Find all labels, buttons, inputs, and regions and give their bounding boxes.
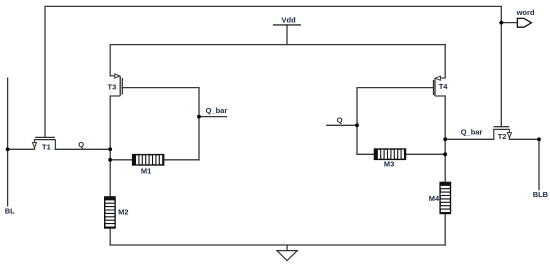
svg-text:Q: Q [78, 140, 84, 149]
svg-text:Q_bar: Q_bar [461, 127, 483, 136]
wire Vdd stem [286, 25, 288, 45]
svg-text:Q_bar: Q_bar [206, 106, 228, 115]
svg-text:T3: T3 [108, 82, 117, 91]
node word tap junction [499, 21, 503, 25]
wire T4 gate to node Q [357, 88, 434, 155]
node M1 rail junction [108, 158, 112, 162]
memristor M3 [374, 149, 405, 168]
node Q rail junction [108, 147, 112, 151]
wire ground stem [286, 245, 288, 251]
wire BL to T1 [8, 148, 35, 150]
wire T1 to left rail node Q [55, 148, 110, 150]
svg-text:M4: M4 [429, 194, 440, 203]
memristor M2 [105, 197, 129, 228]
memristor M4 [429, 182, 451, 213]
node Q stub junction [355, 123, 359, 127]
svg-text:word: word [516, 8, 535, 17]
svg-text:M3: M3 [384, 159, 394, 168]
svg-text:BLB: BLB [533, 190, 549, 199]
wire Q_bar stub [199, 116, 227, 118]
wire M1 left [110, 159, 132, 161]
wire right rail middle [444, 96, 446, 182]
wire left rail middle [109, 96, 111, 196]
node Q_bar stub junction [197, 115, 201, 119]
wire left rail lower [109, 229, 111, 245]
wire left rail upper [109, 45, 111, 76]
wire Q stub [327, 124, 357, 126]
wire right rail to T2 [445, 138, 494, 140]
node M3 rail junction [443, 152, 447, 156]
svg-text:T1: T1 [42, 143, 51, 152]
svg-text:T4: T4 [439, 82, 449, 91]
wire M3 right [406, 153, 445, 155]
wire right rail lower [444, 214, 446, 245]
svg-text:T2: T2 [498, 132, 507, 141]
wire T3 gate to node Q_bar [122, 88, 199, 160]
wire BLB vertical [538, 139, 540, 189]
transistor T4 [434, 76, 449, 96]
wire bottom rail [110, 244, 445, 246]
svg-text:Vdd: Vdd [282, 15, 297, 24]
wire M1 right [164, 159, 199, 161]
transistor T2 [493, 127, 511, 142]
svg-text:M1: M1 [141, 167, 151, 176]
transistor T1 [32, 137, 55, 151]
node Q_bar rail junction [443, 137, 447, 141]
wire word tap [501, 22, 517, 24]
wire T2 to BLB [509, 138, 539, 140]
port word [516, 8, 535, 27]
wire right rail upper [444, 45, 446, 78]
wire M3 left [357, 153, 374, 155]
wire word line top loop [45, 6, 501, 137]
svg-text:BL: BL [5, 206, 15, 215]
ground [277, 251, 297, 261]
svg-text:Q: Q [337, 116, 343, 125]
wire BL vertical [7, 78, 9, 206]
transistor T3 [108, 74, 123, 96]
wire top rail [110, 44, 445, 46]
node BL junction [6, 147, 10, 151]
power symbol Vdd [273, 15, 301, 25]
memristor M1 [133, 155, 164, 176]
svg-text:M2: M2 [118, 208, 128, 217]
node BLB junction [537, 137, 541, 141]
